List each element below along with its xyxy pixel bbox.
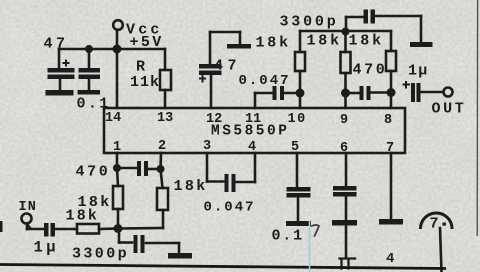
svg-text:OUT: OUT: [432, 101, 467, 118]
svg-text:3300p: 3300p: [72, 246, 129, 263]
svg-text:14: 14: [105, 111, 121, 126]
svg-text:18k: 18k: [349, 33, 384, 50]
svg-text:2: 2: [158, 139, 166, 154]
svg-text:3300p: 3300p: [280, 14, 339, 31]
svg-text:47: 47: [44, 36, 69, 53]
svg-text:8: 8: [384, 113, 392, 128]
svg-text:7: 7: [430, 216, 441, 233]
svg-text:3: 3: [203, 139, 211, 154]
svg-text:R: R: [136, 59, 145, 76]
svg-text:470: 470: [353, 62, 388, 79]
svg-text:0.1: 0.1: [272, 228, 304, 245]
svg-text:10: 10: [288, 112, 307, 127]
svg-text:1μ: 1μ: [408, 63, 428, 80]
svg-text:9: 9: [340, 113, 348, 128]
svg-text:11k: 11k: [130, 74, 160, 91]
svg-text:0.047: 0.047: [239, 73, 291, 89]
svg-text:4: 4: [386, 251, 396, 267]
svg-text:18k: 18k: [174, 178, 208, 195]
svg-text:MS5850P: MS5850P: [211, 124, 289, 140]
svg-text:0.1: 0.1: [77, 96, 111, 113]
svg-text:13: 13: [157, 111, 173, 126]
svg-text:7: 7: [386, 141, 394, 156]
svg-text:18k: 18k: [256, 35, 291, 52]
svg-text:1μ: 1μ: [34, 239, 60, 257]
svg-text:47: 47: [214, 58, 241, 75]
svg-text:0.047: 0.047: [204, 200, 256, 216]
svg-text:+5V: +5V: [130, 34, 164, 51]
svg-text:5: 5: [291, 140, 299, 155]
svg-text:18k: 18k: [66, 208, 100, 225]
svg-text:470: 470: [76, 164, 111, 181]
svg-text:6: 6: [340, 141, 348, 156]
svg-text:18k: 18k: [307, 33, 342, 50]
svg-text:4: 4: [248, 140, 256, 155]
svg-text:IN: IN: [19, 200, 38, 215]
svg-text:1: 1: [113, 140, 121, 155]
